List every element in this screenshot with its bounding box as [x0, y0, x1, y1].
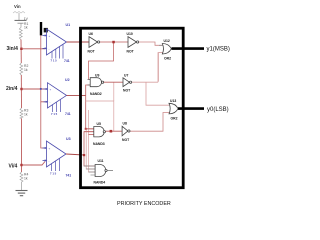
box priority encoder	[81, 28, 184, 188]
svg-text:NOT: NOT	[88, 50, 96, 54]
resistor R4	[20, 172, 23, 182]
wire U8 out to U13	[130, 113, 169, 132]
wire y1 output	[172, 47, 205, 50]
junction rail crossing	[40, 88, 42, 90]
svg-text:+: +	[49, 34, 51, 38]
wire to ground	[21, 182, 23, 191]
svg-text:-: -	[50, 101, 51, 105]
svg-text:U1: U1	[66, 23, 71, 27]
junction op3 out	[83, 154, 85, 156]
svg-text:Vi/4: Vi/4	[9, 164, 18, 170]
svg-text:U11: U11	[98, 159, 104, 163]
wire 3in/4 to op1	[22, 48, 45, 50]
wire ladder segment	[20, 75, 22, 108]
junction U5 out	[110, 130, 113, 133]
svg-text:7 1 5: 7 1 5	[51, 59, 58, 63]
junction row1	[112, 41, 115, 44]
gate U10 NOT	[127, 32, 139, 54]
svg-text:U10: U10	[127, 32, 133, 36]
svg-text:1V: 1V	[24, 17, 29, 21]
svg-text:U2: U2	[65, 78, 70, 82]
svg-text:741: 741	[65, 112, 71, 116]
wire trunk to U5 in3	[89, 110, 94, 135]
wire trunk to U5 in1	[86, 95, 94, 128]
node Va label	[44, 28, 48, 33]
svg-text:+: +	[49, 147, 51, 151]
svg-text:U13: U13	[170, 99, 176, 103]
gate U5 NAND3	[84, 122, 105, 146]
wire op2 output	[67, 94, 86, 96]
svg-text:3in/4: 3in/4	[7, 46, 19, 52]
resistor R3	[20, 108, 23, 119]
svg-text:U9: U9	[95, 73, 99, 77]
svg-text:1k: 1k	[24, 176, 28, 180]
wire op2 out up to U9	[86, 85, 91, 95]
svg-text:U5: U5	[97, 122, 101, 126]
svg-text:7 1 5: 7 1 5	[50, 172, 57, 176]
svg-text:y1(MSB): y1(MSB)	[207, 47, 230, 53]
wire U7 out up to U12	[158, 53, 162, 83]
svg-text:NAND2: NAND2	[90, 92, 102, 96]
junction U5 in1	[85, 128, 87, 130]
node Va input bar	[40, 22, 42, 35]
gate U13 OR2	[166, 99, 179, 121]
svg-text:Vin: Vin	[14, 4, 21, 9]
wire Vi/4 to op3	[22, 162, 46, 166]
svg-text:PRIORITY ENCODER: PRIORITY ENCODER	[117, 201, 171, 207]
svg-text:7 1 5: 7 1 5	[51, 112, 58, 116]
wire pink loop	[86, 101, 114, 131]
wire op3 output	[66, 154, 84, 155]
gate U9 NAND2	[88, 73, 104, 96]
svg-text:OR2: OR2	[164, 57, 171, 61]
svg-text:U8: U8	[123, 122, 127, 126]
svg-text:NOT: NOT	[122, 138, 130, 142]
wire U5 out to U8	[105, 130, 122, 132]
wire U10 to U12	[139, 42, 163, 45]
op-amp U1	[43, 29, 67, 59]
wire U6 to U10	[100, 41, 128, 43]
svg-text:-: -	[49, 160, 50, 164]
battery V1	[15, 19, 27, 21]
wire y0 output	[178, 107, 204, 110]
gate U6 NOT	[88, 32, 100, 54]
gate U11 NAND4	[84, 159, 113, 185]
wire row1 drop to U9	[89, 42, 114, 79]
wire Va rail	[41, 35, 46, 101]
wire squiggle at top of ladder	[13, 12, 25, 14]
wire ladder segment	[21, 119, 23, 173]
resistor R2	[20, 63, 23, 75]
svg-text:741: 741	[64, 59, 70, 63]
svg-text:U3: U3	[66, 137, 71, 141]
svg-text:U7: U7	[124, 73, 128, 77]
svg-text:1k: 1k	[24, 112, 28, 116]
wire op1 output	[67, 41, 90, 43]
svg-text:y0(LSB): y0(LSB)	[207, 107, 229, 113]
svg-text:741: 741	[66, 174, 72, 178]
gate U8 NOT	[122, 122, 130, 142]
svg-text:NOT: NOT	[127, 50, 135, 54]
svg-text:U6: U6	[89, 32, 93, 36]
ground	[16, 190, 28, 192]
svg-text:OR2: OR2	[171, 117, 178, 121]
op-amp U2	[44, 83, 67, 112]
gate U7 NOT	[123, 73, 132, 92]
svg-text:NAND3: NAND3	[93, 142, 105, 146]
wire U9 out drop	[113, 82, 115, 101]
svg-text:NOT: NOT	[123, 89, 131, 93]
svg-text:-: -	[49, 47, 50, 51]
wire Va rail lower	[41, 102, 45, 148]
svg-text:+: +	[50, 88, 52, 92]
wire 2in/4 to op2	[22, 88, 46, 90]
wire	[20, 23, 22, 27]
wire trunk C to U11 in3	[89, 135, 96, 172]
wire U7 out	[132, 81, 158, 83]
wire trunk B to U11 in2	[86, 129, 95, 169]
gate U12 OR2	[159, 39, 172, 81]
svg-text:2in/4: 2in/4	[6, 86, 18, 92]
svg-text:U12: U12	[164, 39, 170, 43]
op-amp U3	[43, 141, 67, 171]
wire U9 out to U7	[104, 81, 123, 83]
svg-text:NAND4: NAND4	[94, 181, 106, 185]
svg-text:1k: 1k	[24, 26, 28, 30]
resistor R1	[19, 28, 22, 40]
wire	[18, 13, 20, 20]
wire ladder segment	[20, 40, 22, 64]
wire trunk A op3 to U11 in1	[84, 132, 95, 166]
wire U7 out down to U13	[146, 82, 169, 105]
svg-text:1k: 1k	[24, 68, 28, 72]
